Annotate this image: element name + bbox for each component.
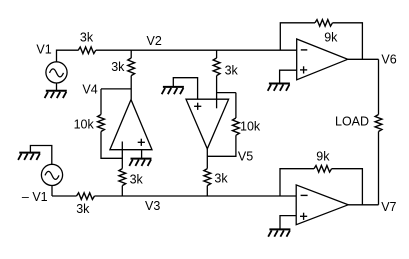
- resistor 10k (U2 feedback): [233, 118, 240, 135]
- value 3k: [214, 172, 228, 186]
- node V2 label: [147, 34, 162, 48]
- node V6 label: [381, 52, 396, 66]
- resistor 3k (V2 down to V4): [128, 58, 135, 76]
- svg-text:3k: 3k: [214, 172, 228, 186]
- wire 3k to op-amp U1 output: [130, 76, 132, 100]
- value 3k: [111, 60, 125, 74]
- svg-text:V5: V5: [238, 150, 253, 164]
- wire U3 feedback up: [280, 23, 315, 50]
- wire 3k to bottom rail: [206, 186, 208, 196]
- op-amp U1 (left, pointing up): [110, 100, 152, 150]
- svg-text:3k: 3k: [111, 60, 125, 74]
- source -V1: [41, 164, 62, 185]
- wire U1 inverting input (stub through base): [121, 142, 123, 169]
- svg-text:9k: 9k: [324, 31, 338, 45]
- label -V1: [22, 190, 48, 204]
- op-amp U4 (bottom right): [296, 185, 348, 225]
- ground (U3 + input): [268, 84, 290, 91]
- ground (U2 + input): [162, 87, 184, 94]
- wire 10k to V5: [207, 135, 236, 156]
- label V1: [36, 42, 51, 56]
- svg-text:V4: V4: [82, 83, 97, 97]
- svg-text:3k: 3k: [130, 173, 144, 187]
- wire top rail node V2: [96, 49, 297, 51]
- value 10k: [240, 120, 261, 134]
- resistor 10k (left feedback): [98, 115, 105, 132]
- value 9k: [324, 31, 338, 45]
- source V1: [46, 62, 67, 83]
- value 3k: [80, 30, 94, 44]
- node V4 label: [82, 83, 97, 97]
- value 3k: [130, 173, 144, 187]
- node V7 label: [381, 200, 396, 214]
- svg-text:9k: 9k: [316, 149, 330, 163]
- wire V2 to middle 3k: [216, 50, 218, 58]
- ground (U1 + input): [129, 159, 151, 166]
- resistor 9k (U3 feedback): [315, 20, 333, 27]
- op-amp U2 (middle, pointing down): [186, 99, 229, 149]
- resistor 3k (top, V1 to V2): [78, 47, 96, 54]
- wire U2 output down: [206, 149, 208, 169]
- wire 9k to U4 output: [332, 169, 363, 205]
- wire down to 10k: [235, 93, 237, 118]
- svg-text:V6: V6: [381, 52, 396, 66]
- wire 3k to U2 inverting input (stub through top edge): [216, 76, 218, 109]
- value 3k: [76, 202, 90, 216]
- wire V1 bottom stub: [56, 83, 58, 91]
- resistor 3k (V2 to U2 inverting input): [213, 58, 220, 76]
- resistor 3k (below U1): [119, 169, 126, 186]
- wire U3 output to node V6: [348, 58, 379, 60]
- wire V2 to 3k: [130, 50, 132, 58]
- svg-text:V3: V3: [145, 199, 160, 213]
- svg-text:V1: V1: [36, 42, 51, 56]
- wire U2 non-inverting input to ground: [173, 78, 197, 100]
- svg-text:LOAD: LOAD: [335, 115, 369, 129]
- value LOAD: [335, 115, 369, 129]
- wire -V1 bottom to rail: [51, 185, 53, 196]
- wire U4 feedback up: [280, 169, 314, 196]
- svg-text:V7: V7: [381, 200, 396, 214]
- wire 3k to bottom rail: [121, 186, 123, 196]
- wire node V4 branch: [101, 88, 131, 90]
- wire V4 down to 10k: [100, 89, 102, 115]
- wire V6 down to LOAD: [378, 59, 380, 114]
- wire 9k to U3 output: [333, 23, 363, 60]
- resistor 3k (bottom, -V1 to V3): [77, 193, 95, 200]
- resistor LOAD: [375, 115, 382, 132]
- wire 10k to U1 inverting input: [101, 132, 122, 159]
- value 3k: [225, 64, 239, 78]
- wire bottom rail left: [52, 195, 77, 197]
- ground (above -V1): [18, 153, 40, 160]
- svg-text:3k: 3k: [76, 202, 90, 216]
- wire U3 non-inverting input to ground: [280, 70, 297, 83]
- resistor 3k (below U2): [204, 169, 211, 186]
- wire U4 output to node V7: [348, 204, 378, 206]
- svg-text:– V1: – V1: [22, 190, 48, 204]
- ground (below V1): [45, 91, 67, 98]
- node V5 label: [238, 150, 253, 164]
- wire junction to 10k branch: [217, 92, 236, 94]
- wire LOAD down to V7: [378, 132, 380, 205]
- node V3 label: [145, 199, 160, 213]
- wire U4 non-inverting input to ground: [280, 216, 296, 230]
- svg-text:3k: 3k: [80, 30, 94, 44]
- wire V1 top to rail: [57, 50, 79, 62]
- value 10k: [74, 117, 95, 131]
- svg-text:V2: V2: [147, 34, 162, 48]
- resistor 9k (U4 feedback): [314, 166, 332, 173]
- wire ground to -V1 top: [30, 146, 51, 165]
- wire U1 non-inverting input to ground: [141, 150, 143, 159]
- svg-text:10k: 10k: [240, 120, 261, 134]
- ground (U4 + input): [268, 229, 290, 236]
- op-amp U3 (top right): [297, 39, 348, 80]
- wire bottom rail node V3: [95, 195, 297, 197]
- svg-text:10k: 10k: [74, 117, 95, 131]
- value 9k: [316, 149, 330, 163]
- svg-text:3k: 3k: [225, 64, 239, 78]
